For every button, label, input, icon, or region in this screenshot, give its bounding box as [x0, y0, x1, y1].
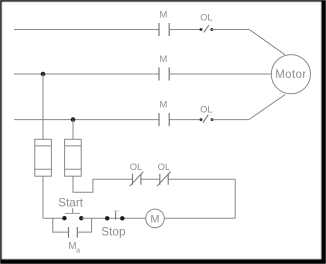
wire L1 middle segment: [170, 29, 201, 31]
wire crossing of L2 drop over L3: [42, 74, 44, 139]
pushbutton Start (NO): [62, 208, 83, 220]
svg-text:M: M: [150, 213, 159, 225]
svg-text:a: a: [76, 247, 80, 254]
wire control bottom line left segment: [43, 217, 64, 219]
overload heater OL1 right terminal dot: [210, 28, 213, 31]
label Ma: [68, 241, 80, 255]
wire Ma branch left drop: [53, 218, 68, 232]
svg-text:Motor: Motor: [275, 69, 306, 81]
wire Ma branch right riser: [78, 218, 92, 232]
wire control bottom line through Stop: [82, 217, 146, 219]
wire L3 right segment: [212, 119, 249, 121]
wire control top line segment 3: [169, 178, 236, 180]
contact M3 (NO contact bars): [159, 113, 169, 126]
junction node on L3: [71, 117, 76, 122]
contact Ma (NO auxiliary): [69, 227, 78, 238]
svg-text:M: M: [159, 53, 167, 64]
svg-text:OL: OL: [200, 11, 213, 22]
wire L2 right segment: [170, 73, 272, 75]
svg-text:M: M: [159, 99, 167, 110]
wire F1 bottom stem: [42, 176, 44, 218]
wire L1 diagonal to motor: [249, 30, 285, 55]
svg-text:OL: OL: [130, 161, 143, 172]
pushbutton Stop (NC): [105, 211, 125, 221]
svg-text:M: M: [159, 9, 167, 20]
svg-text:OL: OL: [158, 161, 171, 172]
wire L2 left segment: [14, 73, 159, 75]
overload heater OL3 slash: [203, 115, 208, 123]
motor circle: [271, 55, 310, 94]
svg-text:Start: Start: [58, 195, 84, 209]
wire control bottom line right segment: [164, 217, 235, 219]
wire L3 middle segment: [170, 119, 201, 121]
svg-text:Stop: Stop: [101, 225, 126, 239]
wire F2 bottom stem to control tap: [73, 176, 93, 192]
overload heater OL1 left terminal dot: [200, 28, 203, 31]
wire L3 left segment: [14, 119, 159, 121]
overload heater OL3 left terminal dot: [200, 118, 203, 121]
overload heater OL3 right terminal dot: [211, 118, 214, 121]
wire L3 drop to fuse F2: [72, 120, 74, 140]
wire L3 diagonal to motor: [249, 95, 285, 120]
wire control top line segment 1: [93, 178, 132, 180]
coil M circle: [146, 209, 165, 228]
contact M1 (NO contact bars): [159, 23, 169, 36]
junction node on L2: [41, 72, 46, 77]
overload contact OLc1 (NC with slash): [130, 172, 144, 187]
wire control top line segment 2: [141, 178, 159, 180]
contact M2 (NO contact bars): [159, 68, 169, 81]
wire control right edge: [234, 179, 236, 218]
overload heater OL1 slash: [204, 25, 209, 32]
wire L1 right segment: [212, 29, 249, 31]
overload contact OLc2 (NC with slash): [157, 172, 171, 187]
fuse F1 body: [35, 139, 52, 176]
wire L1 left segment: [14, 29, 159, 31]
svg-text:OL: OL: [200, 103, 213, 114]
fuse F2 body: [65, 139, 82, 176]
